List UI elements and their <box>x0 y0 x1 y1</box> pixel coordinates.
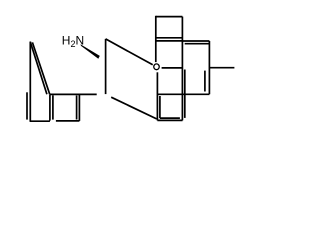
double bond diagonal (inner line) <box>32 42 49 94</box>
top square ring: left edge <box>155 16 157 62</box>
right ring: right vertical edge <box>208 41 210 94</box>
long shared right vertical edge <box>181 17 183 121</box>
middle horizontal bond (ring junction) <box>157 93 209 95</box>
terminal methyl bond <box>209 67 234 69</box>
lower right ring: inner left partner <box>159 96 161 118</box>
bond from stereocenter to ether O <box>106 39 153 65</box>
horizontal bond across ring tops <box>50 93 97 95</box>
lower middle ring: bottom edge <box>56 120 80 122</box>
ether oxygen O glyph <box>154 64 160 70</box>
lower right ring: bottom inner partner <box>160 117 180 119</box>
top square ring: top edge <box>156 16 183 18</box>
lower middle ring: inner vertical partner <box>76 96 78 120</box>
double bond diagonal (outer line) from apex <box>30 42 47 95</box>
diagonal bond to lower right ring <box>111 97 156 119</box>
top square ring: bottom edge line 2 <box>156 40 183 42</box>
stereocenter vertical bond <box>105 39 107 94</box>
right ring: inner vertical partner <box>204 71 206 92</box>
left ring: main vertical edge <box>29 42 31 122</box>
lower middle ring: right vertical edge <box>78 94 80 121</box>
left ring: inner double-bond line (left partner) <box>26 92 28 119</box>
svg-text:H2N: H2N <box>62 33 84 49</box>
upper right double bond main line <box>182 40 209 42</box>
vertical bond below O <box>156 72 158 120</box>
amino wedge bond <box>80 44 99 58</box>
top square ring: bottom edge line 1 <box>156 37 183 39</box>
long inner partner line of shared right edge <box>184 70 186 118</box>
bond from O to right ring <box>162 67 183 69</box>
left ring: inner vertical partner <box>52 95 54 119</box>
left ring: right vertical edge <box>49 94 51 120</box>
lower right ring: bottom edge <box>157 119 182 121</box>
upper right double bond partner line <box>185 43 209 45</box>
left ring: bottom edge <box>30 120 50 122</box>
